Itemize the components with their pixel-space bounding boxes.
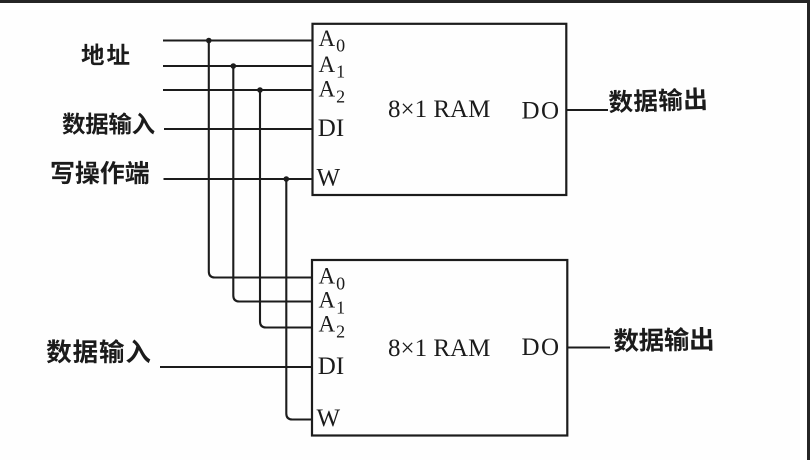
node: junction on A2 line — [257, 87, 263, 93]
svg-text:DO: DO — [522, 98, 561, 125]
svg-text:DI: DI — [318, 353, 344, 380]
svg-text:W: W — [317, 165, 341, 192]
RAM U2 (bottom 8x1 RAM block) — [312, 260, 567, 436]
svg-text:8×1 RAM: 8×1 RAM — [388, 96, 490, 123]
net label: write-operation terminal (W) — [52, 161, 149, 185]
node: junction on W line — [284, 176, 290, 182]
svg-text:DI: DI — [318, 115, 344, 142]
wire: DO output of U2 — [567, 346, 610, 348]
wire: address A0 into U1 — [163, 39, 313, 41]
wire: W write enable into U1 — [164, 178, 313, 180]
net label: address (dizhi) for U1 address bus — [81, 44, 129, 66]
net label: data output of U1 — [609, 87, 706, 113]
wire: A0 branch down to U2 — [209, 41, 312, 278]
node: junction on A1 line — [231, 63, 237, 69]
wire: address A1 into U1 — [163, 65, 313, 67]
wire: address A2 into U1 — [163, 89, 313, 91]
net label: data output of U2 — [614, 327, 713, 353]
net label: data input (top DI) — [63, 112, 155, 134]
node: junction on A0 line — [206, 38, 212, 44]
wire: A1 branch down to U2 — [233, 66, 312, 302]
svg-text:DO: DO — [522, 334, 561, 361]
wire: A2 branch down to U2 — [260, 90, 312, 328]
RAM U1 (top 8x1 RAM block) — [313, 24, 567, 195]
wire: DI data input into U2 — [160, 366, 312, 368]
net label: data input (bottom DI) — [47, 339, 151, 363]
wire: DI data input into U1 — [164, 128, 313, 130]
wire: DO output of U1 — [566, 109, 608, 111]
wire: W branch down to U2 — [286, 179, 312, 420]
svg-text:W: W — [317, 405, 341, 432]
svg-text:8×1 RAM: 8×1 RAM — [388, 335, 490, 362]
